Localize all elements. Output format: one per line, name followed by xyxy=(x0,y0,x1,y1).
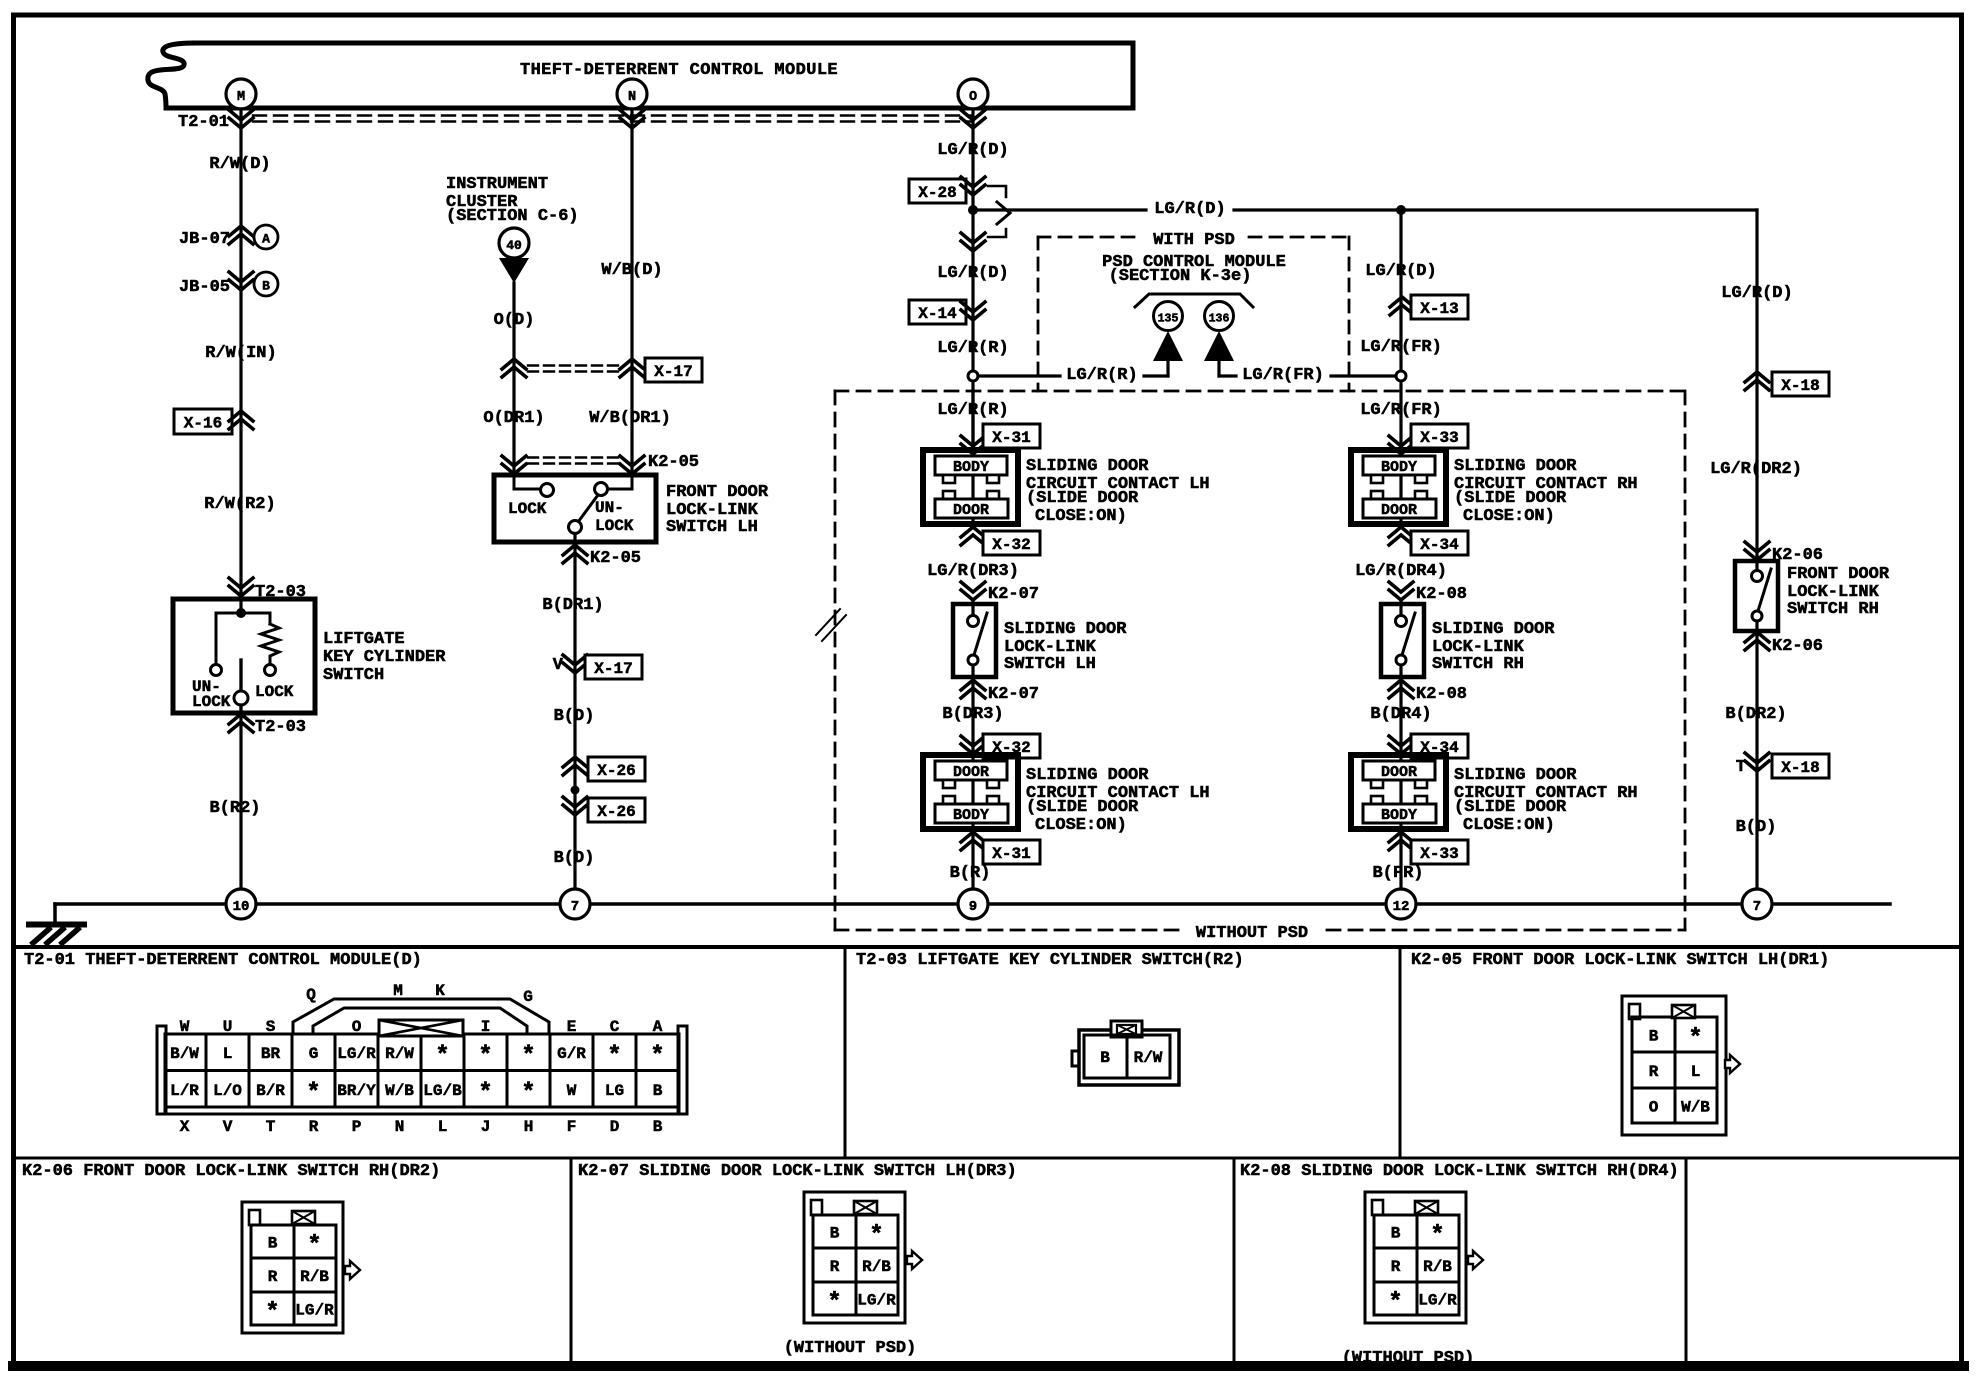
svg-text:LG/R(FR): LG/R(FR) xyxy=(1360,338,1442,357)
svg-text:B(DR3): B(DR3) xyxy=(942,705,1003,724)
svg-text:LG/R(D): LG/R(D) xyxy=(1721,284,1792,303)
svg-text:7: 7 xyxy=(1753,899,1761,915)
svg-text:40: 40 xyxy=(506,238,522,253)
svg-text:SLIDING DOOR: SLIDING DOOR xyxy=(1454,457,1577,476)
svg-text:N: N xyxy=(395,1118,405,1136)
svg-text:LOCK: LOCK xyxy=(595,517,634,535)
svg-text:LG/R(D): LG/R(D) xyxy=(1365,262,1436,281)
svg-text:CLOSE:ON): CLOSE:ON) xyxy=(1035,816,1127,835)
svg-text:B(FR): B(FR) xyxy=(1372,864,1423,883)
svg-text:BODY: BODY xyxy=(953,459,989,476)
svg-text:X-32: X-32 xyxy=(992,536,1030,554)
svg-text:SWITCH RH: SWITCH RH xyxy=(1432,655,1524,674)
svg-text:B(D): B(D) xyxy=(554,707,595,726)
svg-text:A: A xyxy=(653,1018,663,1036)
svg-text:O(D): O(D) xyxy=(494,311,535,330)
svg-text:*: * xyxy=(1688,1026,1702,1053)
svg-text:BODY: BODY xyxy=(1381,807,1417,824)
svg-text:B: B xyxy=(262,279,270,294)
svg-text:D: D xyxy=(610,1118,620,1136)
svg-text:K2-06 FRONT DOOR LOCK-LINK SWI: K2-06 FRONT DOOR LOCK-LINK SWITCH RH(DR2… xyxy=(22,1162,440,1181)
svg-text:P: P xyxy=(352,1118,362,1136)
svg-text:*: * xyxy=(869,1223,883,1250)
svg-text:BODY: BODY xyxy=(953,807,989,824)
svg-text:CLOSE:ON): CLOSE:ON) xyxy=(1463,507,1555,526)
svg-text:O(DR1): O(DR1) xyxy=(483,409,544,428)
svg-text:INSTRUMENT: INSTRUMENT xyxy=(446,175,548,194)
svg-text:LG/R(D): LG/R(D) xyxy=(937,141,1008,160)
svg-text:L: L xyxy=(223,1045,233,1063)
svg-text:SWITCH: SWITCH xyxy=(323,666,384,685)
svg-text:(SECTION K-3e): (SECTION K-3e) xyxy=(1109,267,1252,286)
svg-text:LG/R(DR2): LG/R(DR2) xyxy=(1710,460,1802,479)
svg-text:K2-07: K2-07 xyxy=(988,685,1039,704)
svg-text:B/W: B/W xyxy=(170,1045,199,1063)
svg-text:R/W: R/W xyxy=(385,1045,414,1063)
svg-text:LG/R: LG/R xyxy=(1418,1292,1457,1310)
svg-text:135: 135 xyxy=(1158,313,1179,326)
svg-text:K2-06: K2-06 xyxy=(1772,637,1823,656)
svg-text:SLIDING DOOR: SLIDING DOOR xyxy=(1026,766,1149,785)
svg-text:X-34: X-34 xyxy=(1420,536,1459,554)
svg-text:R: R xyxy=(268,1268,278,1286)
svg-text:(SLIDE DOOR: (SLIDE DOOR xyxy=(1026,798,1139,817)
svg-text:V: V xyxy=(553,656,564,675)
svg-text:S: S xyxy=(266,1018,276,1036)
svg-text:L: L xyxy=(1691,1063,1701,1081)
svg-text:*: * xyxy=(650,1043,664,1070)
svg-text:B(R): B(R) xyxy=(950,864,991,883)
svg-text:B: B xyxy=(1649,1028,1659,1046)
svg-text:K2-05: K2-05 xyxy=(648,453,699,472)
svg-text:T2-03: T2-03 xyxy=(255,718,306,737)
svg-text:B: B xyxy=(830,1225,840,1243)
svg-text:K: K xyxy=(435,982,445,1000)
svg-text:DOOR: DOOR xyxy=(953,764,989,781)
svg-text:LG/R(DR3): LG/R(DR3) xyxy=(927,562,1019,581)
svg-text:B(DR2): B(DR2) xyxy=(1725,705,1786,724)
svg-text:F: F xyxy=(567,1118,577,1136)
svg-text:B: B xyxy=(1391,1225,1401,1243)
svg-text:B(DR4): B(DR4) xyxy=(1370,705,1431,724)
svg-text:T2-01 THEFT-DETERRENT CONTROL: T2-01 THEFT-DETERRENT CONTROL MODULE(D) xyxy=(24,951,422,970)
svg-text:LG/R(R): LG/R(R) xyxy=(937,401,1008,420)
svg-text:W/B: W/B xyxy=(385,1082,414,1100)
svg-text:X-31: X-31 xyxy=(992,845,1030,863)
svg-text:X-26: X-26 xyxy=(597,762,635,780)
svg-text:K2-05 FRONT DOOR LOCK-LINK SWI: K2-05 FRONT DOOR LOCK-LINK SWITCH LH(DR1… xyxy=(1411,951,1829,970)
svg-text:U: U xyxy=(223,1018,233,1036)
svg-text:X-31: X-31 xyxy=(992,429,1030,447)
svg-text:*: * xyxy=(306,1080,320,1107)
svg-text:X-33: X-33 xyxy=(1420,845,1458,863)
svg-text:JB-07: JB-07 xyxy=(179,230,230,249)
svg-text:X-26: X-26 xyxy=(597,803,635,821)
svg-text:A: A xyxy=(262,232,270,247)
svg-text:L/R: L/R xyxy=(170,1082,199,1100)
svg-text:R: R xyxy=(830,1258,840,1276)
svg-text:FRONT DOOR: FRONT DOOR xyxy=(666,483,769,502)
svg-text:LG/R: LG/R xyxy=(857,1292,896,1310)
svg-text:L: L xyxy=(438,1118,448,1136)
svg-text:G/R: G/R xyxy=(557,1045,586,1063)
svg-text:(SLIDE DOOR: (SLIDE DOOR xyxy=(1454,489,1567,508)
svg-text:X-16: X-16 xyxy=(184,415,222,433)
svg-text:(SLIDE DOOR: (SLIDE DOOR xyxy=(1026,489,1139,508)
svg-text:CLOSE:ON): CLOSE:ON) xyxy=(1463,816,1555,835)
svg-text:T2-03 LIFTGATE KEY CYLINDER SW: T2-03 LIFTGATE KEY CYLINDER SWITCH(R2) xyxy=(856,951,1244,970)
svg-text:R/W(IN): R/W(IN) xyxy=(205,344,276,363)
svg-text:SLIDING DOOR: SLIDING DOOR xyxy=(1026,457,1149,476)
svg-text:K2-05: K2-05 xyxy=(590,549,641,568)
svg-text:BR: BR xyxy=(261,1045,281,1063)
svg-text:LIFTGATE: LIFTGATE xyxy=(323,630,405,649)
svg-text:K2-08 SLIDING DOOR LOCK-LINK S: K2-08 SLIDING DOOR LOCK-LINK SWITCH RH(D… xyxy=(1240,1162,1679,1181)
svg-text:7: 7 xyxy=(571,899,579,915)
svg-text:O: O xyxy=(1649,1099,1659,1117)
svg-text:X-14: X-14 xyxy=(918,305,957,323)
svg-text:LG/R(R): LG/R(R) xyxy=(937,339,1008,358)
svg-text:J: J xyxy=(481,1118,491,1136)
svg-text:N: N xyxy=(628,90,636,105)
svg-text:(SECTION C-6): (SECTION C-6) xyxy=(446,207,579,226)
svg-text:K2-07 SLIDING DOOR LOCK-LINK S: K2-07 SLIDING DOOR LOCK-LINK SWITCH LH(D… xyxy=(578,1162,1017,1181)
svg-text:*: * xyxy=(307,1233,321,1260)
svg-text:O: O xyxy=(969,90,977,105)
svg-text:DOOR: DOOR xyxy=(1381,502,1417,519)
svg-text:M: M xyxy=(237,90,245,105)
svg-text:W/B(D): W/B(D) xyxy=(601,261,662,280)
svg-text:*: * xyxy=(1430,1223,1444,1250)
svg-text:CLOSE:ON): CLOSE:ON) xyxy=(1035,507,1127,526)
svg-text:R/B: R/B xyxy=(1423,1258,1452,1276)
svg-text:*: * xyxy=(1388,1290,1402,1317)
svg-text:X-33: X-33 xyxy=(1420,429,1458,447)
svg-text:W: W xyxy=(180,1018,190,1036)
svg-text:LOCK: LOCK xyxy=(255,683,294,701)
svg-text:KEY CYLINDER: KEY CYLINDER xyxy=(323,648,446,667)
svg-text:(SLIDE DOOR: (SLIDE DOOR xyxy=(1454,798,1567,817)
svg-text:136: 136 xyxy=(1209,313,1230,326)
svg-text:FRONT DOOR: FRONT DOOR xyxy=(1787,565,1890,584)
svg-text:B/R: B/R xyxy=(256,1082,285,1100)
svg-text:X: X xyxy=(180,1118,190,1136)
svg-text:*: * xyxy=(435,1043,449,1070)
svg-text:B: B xyxy=(653,1118,663,1136)
svg-text:(WITHOUT PSD): (WITHOUT PSD) xyxy=(784,1339,917,1358)
svg-text:Q: Q xyxy=(306,986,316,1004)
svg-text:K2-08: K2-08 xyxy=(1416,685,1467,704)
svg-text:R: R xyxy=(1649,1063,1659,1081)
svg-text:T2-01: T2-01 xyxy=(178,113,229,132)
svg-text:UN-: UN- xyxy=(595,499,624,517)
svg-text:THEFT-DETERRENT CONTROL MODULE: THEFT-DETERRENT CONTROL MODULE xyxy=(520,61,838,80)
svg-text:E: E xyxy=(567,1018,577,1036)
svg-text:B(D): B(D) xyxy=(1736,818,1777,837)
svg-text:LG/R(FR): LG/R(FR) xyxy=(1360,401,1442,420)
svg-text:H: H xyxy=(524,1118,534,1136)
svg-text:W/B: W/B xyxy=(1681,1099,1710,1117)
svg-text:T: T xyxy=(266,1118,276,1136)
svg-text:V: V xyxy=(223,1118,233,1136)
svg-text:X-17: X-17 xyxy=(654,363,692,381)
svg-text:(WITHOUT PSD): (WITHOUT PSD) xyxy=(1342,1349,1475,1368)
svg-text:K2-08: K2-08 xyxy=(1416,585,1467,604)
svg-text:BODY: BODY xyxy=(1381,459,1417,476)
svg-text:LG/R(D): LG/R(D) xyxy=(1154,200,1225,219)
svg-text:R: R xyxy=(309,1118,319,1136)
svg-text:*: * xyxy=(607,1043,621,1070)
svg-text:R: R xyxy=(1391,1258,1401,1276)
svg-text:LG: LG xyxy=(605,1082,624,1100)
svg-text:R/W: R/W xyxy=(1134,1049,1163,1067)
svg-text:B: B xyxy=(268,1235,278,1253)
svg-text:WITHOUT PSD: WITHOUT PSD xyxy=(1196,924,1308,943)
svg-text:G: G xyxy=(523,988,533,1006)
svg-text:LG/R(D): LG/R(D) xyxy=(937,264,1008,283)
svg-text:*: * xyxy=(827,1290,841,1317)
svg-text:LG/B: LG/B xyxy=(423,1082,462,1100)
svg-text:R/W(D): R/W(D) xyxy=(209,155,270,174)
svg-text:G: G xyxy=(309,1045,319,1063)
svg-text:LG/R(DR4): LG/R(DR4) xyxy=(1355,562,1447,581)
svg-text:LG/R(FR): LG/R(FR) xyxy=(1242,366,1324,385)
svg-text:SLIDING DOOR: SLIDING DOOR xyxy=(1004,620,1127,639)
svg-text:10: 10 xyxy=(233,899,250,915)
svg-text:K2-07: K2-07 xyxy=(988,585,1039,604)
svg-text:R/B: R/B xyxy=(862,1258,891,1276)
svg-text:SWITCH LH: SWITCH LH xyxy=(1004,655,1096,674)
svg-text:DOOR: DOOR xyxy=(953,502,989,519)
svg-text:W: W xyxy=(567,1082,577,1100)
svg-text:L/O: L/O xyxy=(213,1082,242,1100)
svg-text:M: M xyxy=(393,982,403,1000)
svg-text:X-17: X-17 xyxy=(594,660,632,678)
svg-text:SWITCH LH: SWITCH LH xyxy=(666,518,758,537)
svg-text:X-13: X-13 xyxy=(1420,300,1458,318)
svg-text:BR/Y: BR/Y xyxy=(337,1082,376,1100)
svg-text:B(DR1): B(DR1) xyxy=(542,596,603,615)
svg-text:*: * xyxy=(521,1043,535,1070)
svg-text:*: * xyxy=(521,1080,535,1107)
svg-text:B(D): B(D) xyxy=(554,849,595,868)
svg-text:9: 9 xyxy=(969,899,977,915)
svg-text:SLIDING DOOR: SLIDING DOOR xyxy=(1454,766,1577,785)
svg-text:X-28: X-28 xyxy=(918,184,956,202)
svg-text:LG/R: LG/R xyxy=(337,1045,376,1063)
svg-text:12: 12 xyxy=(1393,899,1410,915)
svg-text:X-18: X-18 xyxy=(1781,759,1819,777)
svg-text:SWITCH RH: SWITCH RH xyxy=(1787,600,1879,619)
svg-text:W/B(DR1): W/B(DR1) xyxy=(589,409,671,428)
svg-text:JB-05: JB-05 xyxy=(179,278,230,297)
svg-text:LG/R: LG/R xyxy=(295,1302,334,1320)
svg-text:R/W(R2): R/W(R2) xyxy=(204,495,275,514)
svg-text:LOCK: LOCK xyxy=(508,500,547,518)
svg-text:B: B xyxy=(653,1082,663,1100)
svg-text:*: * xyxy=(265,1300,279,1327)
svg-text:O: O xyxy=(352,1018,362,1036)
svg-text:*: * xyxy=(478,1080,492,1107)
svg-text:*: * xyxy=(478,1043,492,1070)
svg-text:SLIDING DOOR: SLIDING DOOR xyxy=(1432,620,1555,639)
svg-text:DOOR: DOOR xyxy=(1381,764,1417,781)
svg-text:R/B: R/B xyxy=(300,1268,329,1286)
svg-text:LOCK: LOCK xyxy=(192,693,231,711)
svg-text:X-18: X-18 xyxy=(1781,377,1819,395)
svg-text:C: C xyxy=(610,1018,620,1036)
svg-text:WITH PSD: WITH PSD xyxy=(1153,231,1235,250)
svg-text:I: I xyxy=(481,1018,491,1036)
svg-text:B(R2): B(R2) xyxy=(209,799,260,818)
svg-text:B: B xyxy=(1100,1049,1110,1067)
svg-text:LG/R(R): LG/R(R) xyxy=(1066,366,1137,385)
